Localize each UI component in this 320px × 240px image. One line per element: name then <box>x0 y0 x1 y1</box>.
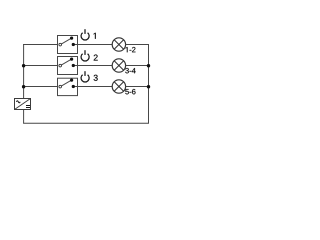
power symbol 2 <box>81 54 89 61</box>
wire: right bus <box>148 44 150 123</box>
switch S2 output wire <box>73 65 77 67</box>
wire: lamp E2 to right bus <box>126 65 149 67</box>
switch S1 pivot <box>59 43 62 46</box>
label 1 (switch group 1) <box>94 33 96 39</box>
switch S3 output wire <box>73 86 77 88</box>
junction dot right bus / branch 2 <box>147 64 150 67</box>
lamp E2 <box>112 59 125 72</box>
switch S2 box <box>58 57 78 75</box>
switch S3 blade contact <box>70 79 73 82</box>
label 3 (switch group 3) <box>94 75 98 81</box>
switch S3 box <box>58 78 78 95</box>
switch S1 blade contact <box>70 37 73 40</box>
wire: lamp E3 to right bus <box>126 86 149 88</box>
AC/DC converter T1 box <box>15 99 31 110</box>
wire: left bus <box>23 44 25 99</box>
wire: converter T1 to bottom edge <box>23 110 25 124</box>
AC symbol <box>16 101 20 103</box>
junction dot left bus / branch 3 <box>22 85 25 88</box>
switch S1 box <box>58 36 78 54</box>
lamp E3 <box>112 80 125 93</box>
junction dot left bus / branch 2 <box>22 64 25 67</box>
wire: S1 to lamp E1 <box>78 44 113 46</box>
junction dot right bus / branch 3 <box>147 85 150 88</box>
label 5-6 (lamp E3) <box>125 89 135 94</box>
wire: left bus to switch S2 <box>24 65 58 67</box>
switch S2 blade contact <box>70 58 73 61</box>
wire: S3 to lamp E3 <box>78 86 113 88</box>
wire: bottom edge <box>23 122 149 124</box>
switch S3 blade <box>61 80 71 86</box>
switch S3 pivot <box>59 85 62 88</box>
switch S3 fixed contact <box>72 85 75 88</box>
DC symbol <box>26 105 30 107</box>
label 1-2 (lamp E1) <box>126 47 136 52</box>
switch S1 fixed contact <box>72 43 75 46</box>
wire: lamp E1 to right bus <box>126 44 150 46</box>
label 2 (switch group 2) <box>94 55 98 61</box>
lamp E1 <box>112 38 125 51</box>
switch S2 fixed contact <box>72 64 75 67</box>
power symbol 1 <box>81 33 89 40</box>
switch S2 blade <box>61 59 71 65</box>
wire: top edge, node L1 to switch S1 <box>23 44 57 46</box>
label 3-4 (lamp E2) <box>125 68 135 73</box>
wire: S2 to lamp E2 <box>78 65 113 67</box>
power symbol 3 <box>81 75 89 82</box>
switch S1 output wire <box>73 44 77 46</box>
wire: left bus to switch S3 <box>24 86 58 88</box>
switch S2 pivot <box>59 64 62 67</box>
switch S1 blade <box>61 38 71 44</box>
